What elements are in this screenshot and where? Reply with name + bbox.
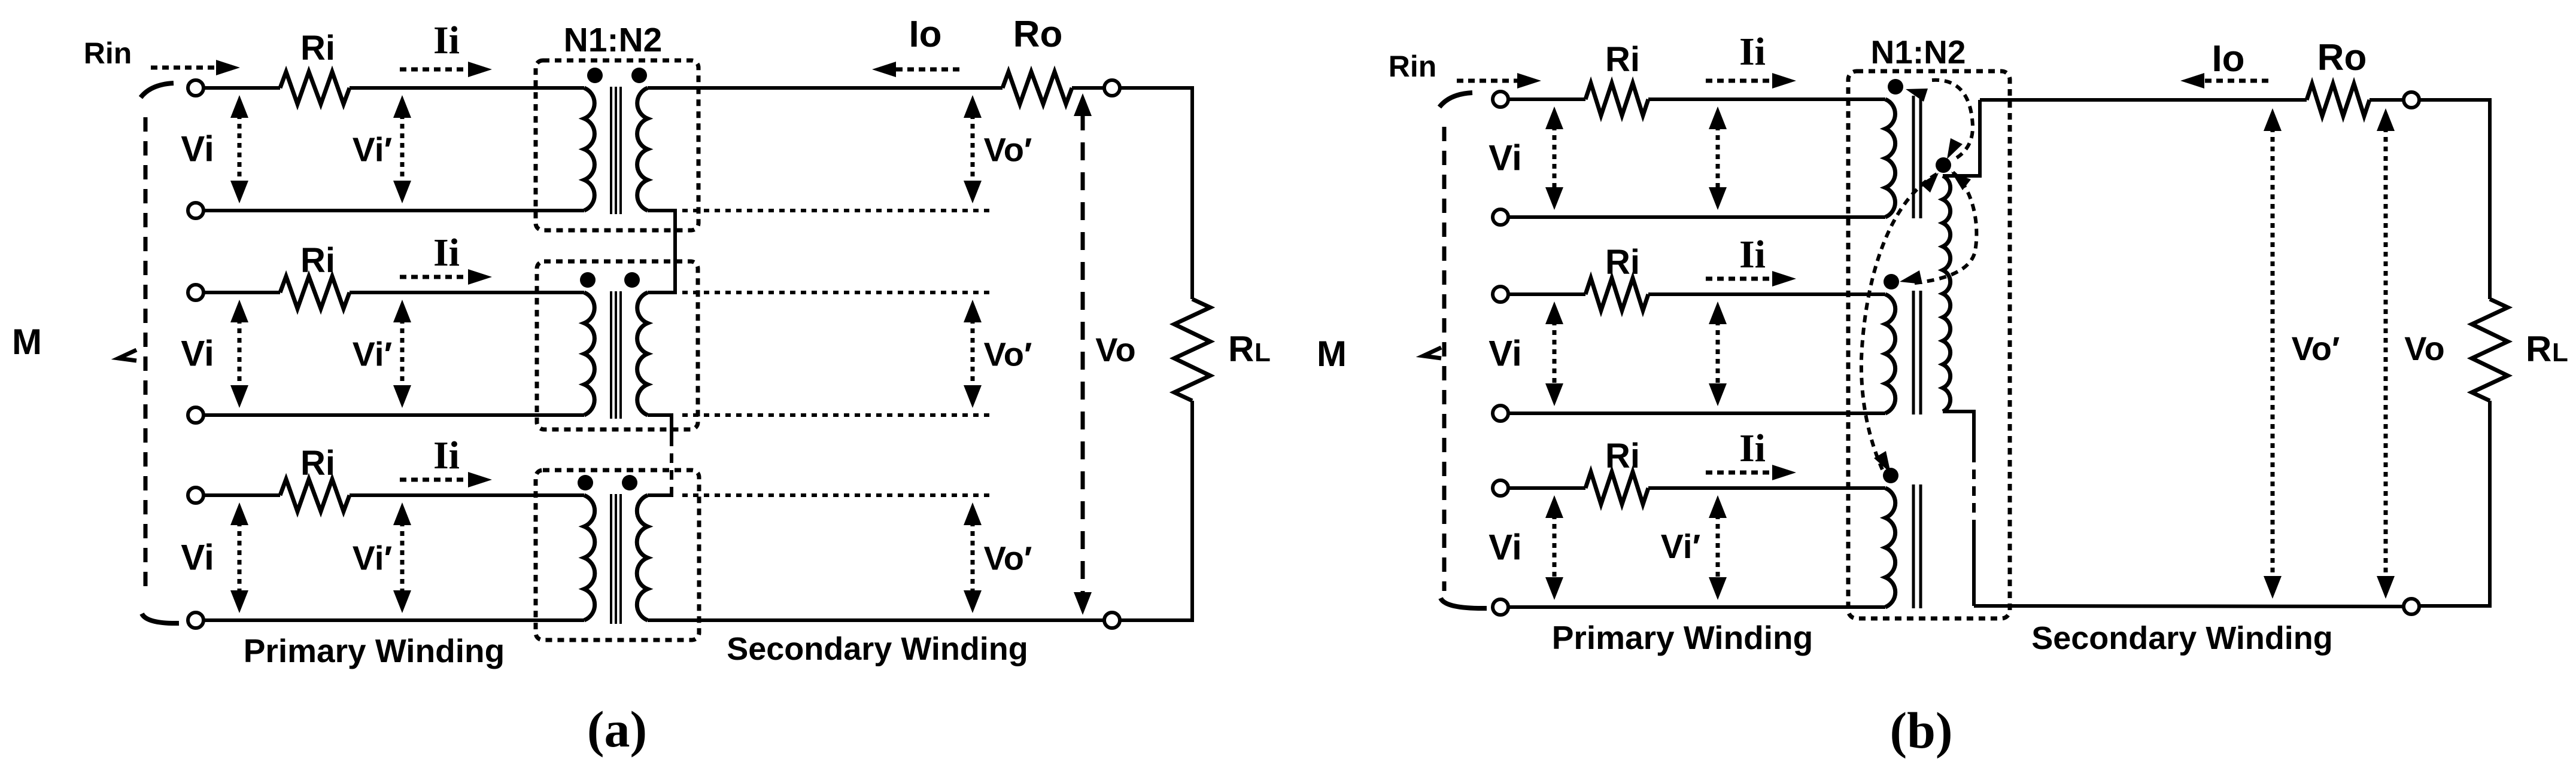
wire (b) row3 top-mid xyxy=(1648,486,1885,490)
transformer (b) row3 primary dot xyxy=(1883,468,1898,483)
coupling arrowhead at row2 dot (b) xyxy=(1900,270,1922,284)
transformer T1 (a) dashed box xyxy=(536,60,698,230)
svg-text:Secondary Winding: Secondary Winding xyxy=(2031,620,2333,656)
wire (a) output top xyxy=(648,86,1003,90)
arrow Ii (a) row1 xyxy=(400,68,470,72)
wire (a) row1 top-mid xyxy=(350,86,584,90)
wire (b) row3 top-left xyxy=(1508,486,1585,490)
arrow Vi (b) row1 xyxy=(1553,126,1557,191)
svg-text:Vi′: Vi′ xyxy=(353,336,393,374)
wire (a) row2 bottom xyxy=(203,413,584,417)
transformer T2 (a) core xyxy=(610,291,612,419)
dotted node line (a) 2 xyxy=(682,291,994,294)
resistor Ri (b) row2 xyxy=(1585,278,1648,310)
arrow Vo (b) xyxy=(2384,127,2388,580)
svg-text:Ri: Ri xyxy=(1605,437,1640,476)
coupling arrowhead at sec dot top (b) xyxy=(1947,138,1963,159)
svg-text:Vi: Vi xyxy=(181,538,214,578)
resistor Ri (a) row1 xyxy=(280,72,350,104)
arrow Vi (a) row3 xyxy=(238,522,242,594)
arrow Vi' (a) row3 xyxy=(400,522,405,594)
arrow Ii (b) row2 xyxy=(1706,277,1775,281)
svg-text:N1:N2: N1:N2 xyxy=(564,21,663,59)
svg-text:Io: Io xyxy=(2212,38,2244,80)
terminal (a) output + xyxy=(1104,80,1120,96)
wire (a) output bottom xyxy=(648,618,1104,622)
dotted node line (a) 4 xyxy=(682,493,994,497)
transformer T1 (a) primary dot xyxy=(587,68,603,83)
transformer T3 (a) secondary coil xyxy=(637,495,648,620)
svg-text:Ri: Ri xyxy=(1605,243,1640,282)
svg-text:Vi′: Vi′ xyxy=(1661,528,1701,566)
terminal (b) output + xyxy=(2404,92,2419,108)
transformer T2 (a) secondary coil xyxy=(637,292,648,415)
arrow Io (b) xyxy=(2202,79,2268,83)
terminal (a) row3 - xyxy=(188,612,203,628)
transformer (b) row1 primary coil xyxy=(1885,99,1895,217)
svg-text:R: R xyxy=(1228,329,1254,369)
arrow Vo' (b) xyxy=(2271,127,2275,580)
svg-text:Ro: Ro xyxy=(2317,37,2367,78)
arrow Ii (b) row1 xyxy=(1706,79,1775,83)
arrow Ii (a) row2 xyxy=(400,275,470,279)
svg-text:Vi: Vi xyxy=(1489,334,1522,374)
arrow Vi (b) row2 xyxy=(1553,321,1557,387)
svg-text:Vo′: Vo′ xyxy=(984,540,1032,577)
wire (a) row2 top-left xyxy=(203,291,280,294)
wire (b) RL to bottom corner xyxy=(2419,401,2490,606)
svg-text:Ii: Ii xyxy=(1739,426,1766,470)
wire (a) terminal to corner xyxy=(1120,88,1192,299)
svg-text:M: M xyxy=(1317,334,1347,374)
terminal (b) row2 - xyxy=(1493,406,1508,421)
transformer T2 (a) secondary dot xyxy=(624,272,640,288)
wire (b) sec drop lower xyxy=(1972,522,1976,606)
svg-text:Ii: Ii xyxy=(433,231,460,275)
resistor Ri (b) row3 xyxy=(1585,472,1648,504)
transformer T3 (a) primary dot xyxy=(578,475,593,490)
arrow Vi (b) row3 xyxy=(1553,514,1557,581)
terminal (b) row1 + xyxy=(1493,92,1508,107)
arrow Vi (a) row2 xyxy=(238,319,242,389)
wire (b) secondary bottom step xyxy=(1943,412,1974,453)
wire (b) row1 bottom xyxy=(1508,215,1885,219)
svg-text:Ii: Ii xyxy=(433,19,460,62)
brace M (b) bottom hook xyxy=(1441,598,1487,608)
transformer T1 (a) core xyxy=(610,87,612,214)
svg-text:Vi: Vi xyxy=(1489,138,1522,178)
wire (a) T1 sec bottom to T2 sec top xyxy=(648,211,675,292)
wire (b) row3 bottom xyxy=(1508,605,1885,609)
resistor Ri (a) row3 xyxy=(280,479,350,511)
dotted node line (a) 3 xyxy=(682,413,994,417)
svg-text:M: M xyxy=(12,322,42,362)
wire (b) sec drop dashed mid xyxy=(1972,453,1976,522)
terminal (b) output - xyxy=(2404,599,2419,614)
transformer T3 (a) dashed box xyxy=(536,470,699,640)
brace M (a) middle tick xyxy=(119,350,136,361)
resistor Ro (b) xyxy=(2307,84,2370,116)
brace M (a) dashed side xyxy=(144,117,148,595)
coupling arc mid (b) xyxy=(1909,172,1976,284)
transformer (b) dashed box xyxy=(1848,71,2010,618)
resistor Ro (a) xyxy=(1003,72,1072,104)
arrow Vo' (a) row3 xyxy=(971,522,975,594)
transformer (b) secondary dot xyxy=(1936,157,1951,173)
svg-text:Vo′: Vo′ xyxy=(2292,330,2340,367)
transformer T2 (a) primary coil xyxy=(584,292,594,415)
transformer (b) row2 core xyxy=(1912,291,1915,414)
transformer T1 (a) secondary coil xyxy=(637,88,648,211)
wire (b) output bottom xyxy=(1974,606,2404,606)
arrow Ii (b) row3 xyxy=(1706,471,1775,475)
transformer T2 (a) dashed box xyxy=(537,261,698,429)
transformer (b) row1 core xyxy=(1912,96,1915,218)
arrow Vo' (a) row1 xyxy=(971,114,975,184)
terminal (a) row2 - xyxy=(188,407,203,423)
wire (a) Ro to terminal xyxy=(1072,86,1104,90)
arrow Io (a) xyxy=(894,68,959,72)
resistor Ri (b) row1 xyxy=(1585,83,1648,115)
arrow Vo (a) xyxy=(1081,112,1085,596)
transformer (b) row3 primary coil xyxy=(1885,488,1895,607)
wire (a) row3 top-left xyxy=(203,493,280,497)
dotted node line (a) 1 xyxy=(682,209,994,212)
arrow Vo' (a) row2 xyxy=(971,319,975,389)
arrow Vi' (b) row2 xyxy=(1716,321,1720,387)
wire (b) row2 top-left xyxy=(1508,292,1585,296)
terminal (a) row1 + xyxy=(188,80,203,96)
svg-text:Ri: Ri xyxy=(300,444,335,483)
coupling arrowhead at row3 dot (b) xyxy=(1874,451,1891,473)
svg-text:Vo: Vo xyxy=(2404,330,2444,367)
arrow Vi' (a) row2 xyxy=(400,319,405,389)
arrow Ii (a) row3 xyxy=(400,478,470,482)
brace M (a) top hook xyxy=(141,83,174,97)
terminal (b) row3 - xyxy=(1493,599,1508,615)
wire (a) T2-T3 link dashed mid xyxy=(670,437,673,487)
coupling arrowhead at sec dot left (b) xyxy=(1920,173,1939,193)
wire (a) T2-T3 link lower xyxy=(648,487,672,495)
svg-text:(b): (b) xyxy=(1890,702,1952,759)
svg-text:L: L xyxy=(1254,338,1271,367)
wire (b) row1 top-left xyxy=(1508,97,1585,101)
brace M (b) middle tick xyxy=(1423,348,1441,358)
wire (b) row2 bottom xyxy=(1508,412,1885,415)
wire (b) secondary top jog xyxy=(1943,100,1980,176)
svg-text:Ri: Ri xyxy=(1605,40,1640,79)
arrow Vi' (b) row1 xyxy=(1716,126,1720,191)
svg-text:Vo: Vo xyxy=(1095,331,1135,368)
wire (b) row2 top-mid xyxy=(1648,292,1885,296)
svg-text:Vo′: Vo′ xyxy=(984,131,1032,169)
svg-text:Ii: Ii xyxy=(1739,233,1766,276)
wire (a) row3 top-mid xyxy=(350,493,584,497)
svg-text:N1:N2: N1:N2 xyxy=(1871,33,1966,71)
transformer T1 (a) primary coil xyxy=(584,88,594,211)
svg-text:R: R xyxy=(2526,329,2551,369)
coupling arc long (b) xyxy=(1861,174,1937,470)
svg-text:(a): (a) xyxy=(587,700,647,758)
svg-text:Rin: Rin xyxy=(84,36,132,70)
svg-text:Ri: Ri xyxy=(300,241,335,280)
arrow Rin (a) xyxy=(151,66,218,70)
transformer (b) row3 core xyxy=(1912,484,1915,608)
coupling arc top (b) xyxy=(1932,80,1973,160)
wire (b) output top xyxy=(1980,98,2307,102)
wire (a) row1 bottom xyxy=(203,209,584,212)
wire (a) row1 top-left xyxy=(203,86,280,90)
terminal (a) row3 + xyxy=(188,487,203,503)
wire (b) terminal to corner xyxy=(2419,100,2490,299)
svg-text:Vi′: Vi′ xyxy=(353,131,393,169)
terminal (b) row1 - xyxy=(1493,209,1508,225)
transformer T3 (a) secondary dot xyxy=(622,475,637,490)
terminal (a) output - xyxy=(1104,612,1120,628)
transformer T2 (a) primary dot xyxy=(580,272,596,288)
transformer (b) row2 primary dot xyxy=(1884,274,1899,289)
wire (a) RL to bottom corner xyxy=(1120,401,1192,620)
wire (b) Ro to terminal xyxy=(2370,98,2404,102)
svg-text:Primary Winding: Primary Winding xyxy=(244,632,505,669)
svg-text:Ii: Ii xyxy=(1739,30,1766,74)
svg-text:Ri: Ri xyxy=(300,29,335,68)
transformer (b) row2 primary coil xyxy=(1885,294,1895,413)
transformer (b) secondary coil xyxy=(1943,176,1951,412)
transformer (b) row1 primary dot xyxy=(1888,79,1903,95)
svg-text:Vi: Vi xyxy=(1489,528,1522,568)
svg-text:Primary Winding: Primary Winding xyxy=(1552,619,1813,656)
svg-text:Secondary Winding: Secondary Winding xyxy=(727,631,1028,667)
svg-text:Vo′: Vo′ xyxy=(984,336,1032,373)
wire (a) T2 sec bottom step xyxy=(648,415,672,437)
svg-text:Rin: Rin xyxy=(1389,50,1437,83)
transformer T3 (a) primary coil xyxy=(584,495,595,620)
coupling arrowhead at row1 dot (b) xyxy=(1906,89,1928,102)
arrow Vi' (b) row3 xyxy=(1716,514,1720,581)
svg-text:Vi′: Vi′ xyxy=(353,540,393,578)
terminal (a) row1 - xyxy=(188,203,203,218)
svg-text:Vi: Vi xyxy=(181,334,214,374)
terminal (b) row2 + xyxy=(1493,287,1508,302)
svg-text:L: L xyxy=(2552,338,2568,367)
terminal (a) row2 + xyxy=(188,285,203,300)
resistor RL (b) xyxy=(2472,299,2508,401)
svg-text:Ro: Ro xyxy=(1013,14,1063,55)
wire (a) row2 top-mid xyxy=(350,291,584,294)
wire (a) row3 bottom xyxy=(203,618,584,622)
arrow Vi' (a) row1 xyxy=(400,114,405,184)
terminal (b) row3 + xyxy=(1493,480,1508,496)
arrow Vi (a) row1 xyxy=(238,114,242,184)
wire (b) row1 top-mid xyxy=(1648,97,1885,101)
brace M (b) dashed side xyxy=(1442,127,1447,591)
transformer T1 (a) secondary dot xyxy=(631,68,647,83)
brace M (b) top hook xyxy=(1439,93,1472,107)
svg-text:Ii: Ii xyxy=(433,434,460,477)
svg-text:Io: Io xyxy=(909,14,941,55)
brace M (a) bottom hook xyxy=(142,614,179,623)
resistor RL (a) xyxy=(1174,299,1210,401)
transformer T3 (a) core xyxy=(610,494,612,624)
arrow Rin (b) xyxy=(1457,79,1520,83)
coupling arrowhead at sec dot right (b) xyxy=(1951,172,1971,190)
resistor Ri (a) row2 xyxy=(280,276,350,309)
svg-text:Vi: Vi xyxy=(181,129,214,169)
